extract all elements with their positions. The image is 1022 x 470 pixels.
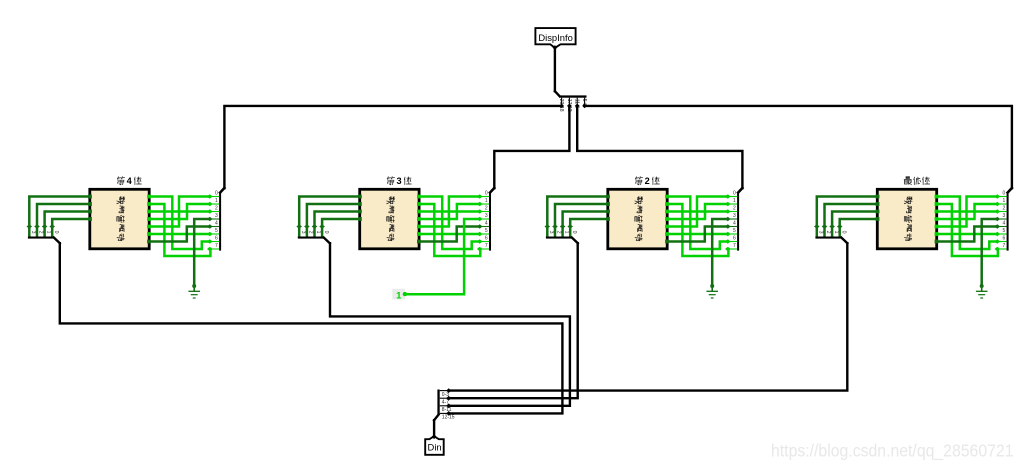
wire seg a: P1->tap6 U2 bbox=[421, 197, 480, 250]
wire seg g: P7->tap4 U4 bbox=[938, 227, 997, 242]
svg-text:7: 7 bbox=[1003, 243, 1006, 249]
wire input bit1 U4 bbox=[822, 204, 876, 237]
splitter leg bit6 SPR3 bbox=[725, 239, 737, 244]
bus wire DispInfo[5:0] to U4 (right run) bbox=[585, 106, 1012, 188]
pins input (left) U3 bbox=[606, 195, 610, 221]
svg-text:8-11: 8-11 bbox=[442, 407, 452, 413]
junction node (ground pin) bbox=[980, 284, 984, 288]
splitter SPR4 (8-bit combine, right of U4) bbox=[1007, 188, 1012, 251]
svg-text:7: 7 bbox=[485, 243, 488, 249]
splitter SP5 Din 16-bit -> 4x4 bbox=[437, 390, 448, 415]
label title block2 bbox=[387, 176, 411, 186]
splitter tap labels 0-7 bbox=[733, 190, 736, 249]
node DispInfo stem diamond bbox=[553, 45, 558, 50]
wire seg b: P2->tap7 U4 bbox=[938, 204, 998, 256]
splitter tap labels 3 2 1 0 bbox=[818, 231, 847, 234]
wire seg e: P5->tap0 U1 bbox=[151, 197, 210, 227]
label 数码管驱动 (vertical) U3 bbox=[635, 197, 643, 241]
splitter SPR3 (8-bit combine, right of U3) bbox=[737, 188, 742, 251]
svg-text:4-7: 4-7 bbox=[442, 399, 449, 405]
svg-text:6: 6 bbox=[485, 235, 488, 241]
svg-text:2: 2 bbox=[308, 231, 314, 234]
splitter leg bit6 SPR2 bbox=[477, 239, 489, 244]
bus wire DispInfo[11:6] to U3 bbox=[577, 106, 742, 188]
splitter tap labels 0-7 bbox=[1003, 190, 1006, 249]
wire seg g: P7->tap4 U1 bbox=[151, 227, 210, 242]
svg-text:0: 0 bbox=[840, 231, 846, 234]
splitter leg bit0 SPR1 bbox=[207, 194, 219, 199]
wire seg f: P6->tap5 U4 bbox=[938, 233, 997, 236]
label 数码管驱动 (vertical) U1 bbox=[117, 197, 125, 241]
splitter leg bit4 SPR4 bbox=[995, 224, 1007, 229]
svg-text:0: 0 bbox=[215, 190, 218, 196]
splitter SPR2 (8-bit combine, right of U2) bbox=[489, 188, 494, 251]
wire input bit0 U2 bbox=[296, 197, 358, 237]
svg-text:2: 2 bbox=[215, 205, 218, 211]
splitter leg bit5 SPR4 bbox=[995, 232, 1007, 237]
tunnel DispInfo bbox=[535, 28, 575, 48]
wire input bit2 U4 bbox=[829, 212, 876, 237]
svg-text:1: 1 bbox=[833, 231, 839, 234]
svg-text:3: 3 bbox=[548, 231, 554, 234]
subcircuit U3 数码管驱动 (第2位) bbox=[608, 189, 667, 249]
svg-text:2: 2 bbox=[1003, 205, 1006, 211]
wire seg c: P3->tap2 U3 bbox=[669, 210, 728, 213]
splitter leg bit4 SPR3 bbox=[725, 224, 737, 229]
bus wire Din[12:15] to U1 bbox=[60, 243, 563, 413]
splitter leg bit7 SPR4 bbox=[995, 247, 1007, 252]
label title block1 bbox=[117, 176, 141, 186]
wire seg a: P1->tap6 U3 bbox=[669, 197, 728, 250]
pins input (left) U2 bbox=[358, 195, 362, 221]
splitter SPL1 (4-bit fanout, left of U1) bbox=[28, 237, 60, 244]
wire seg d: P4->tap1 U4 bbox=[938, 204, 997, 219]
wire seg e: P5->tap0 U3 bbox=[669, 197, 728, 227]
pins output (right) U2 bbox=[417, 195, 421, 244]
splitter leg bit1 SPR1 bbox=[207, 202, 219, 207]
svg-text:2: 2 bbox=[733, 205, 736, 211]
splitter leg bit0 SPR2 bbox=[477, 194, 489, 199]
label 数码管驱动 (vertical) U2 bbox=[387, 197, 395, 241]
splitter leg bit1 SPR3 bbox=[725, 202, 737, 207]
node SP0 tap1 bbox=[567, 104, 572, 109]
wire seg g: P7->tap4 U2 bbox=[421, 227, 480, 242]
wire seg d: P4->tap1 U1 bbox=[151, 204, 210, 219]
splitter SP0 DispInfo 24-bit -> 4x6 bbox=[555, 91, 587, 106]
svg-text:4: 4 bbox=[215, 220, 218, 226]
watermark text bbox=[771, 441, 1014, 462]
pins output (right) U3 bbox=[665, 195, 669, 244]
wire seg g: P7->tap4 U3 bbox=[669, 227, 728, 242]
svg-text:2: 2 bbox=[485, 205, 488, 211]
svg-text:5: 5 bbox=[485, 228, 488, 234]
splitter tap labels 3 2 1 0 bbox=[548, 231, 577, 234]
node Din stem diamond bbox=[432, 434, 437, 439]
svg-text:4: 4 bbox=[485, 220, 488, 226]
svg-text:6: 6 bbox=[1003, 235, 1006, 241]
svg-text:12-15: 12-15 bbox=[442, 415, 455, 421]
bus wire DispInfo[23:18] to U1 (left run) bbox=[224, 106, 561, 188]
wire seg e: P5->tap0 U2 bbox=[421, 197, 480, 227]
splitter SP5 tap labels 0-3 4-7 8-11 12-15 bbox=[442, 392, 455, 421]
svg-text:5: 5 bbox=[733, 228, 736, 234]
svg-text:0-3: 0-3 bbox=[442, 392, 449, 398]
wire seg h: ground->tap3 U3 bbox=[712, 219, 728, 286]
splitter leg bit7 SPR1 bbox=[207, 247, 219, 252]
ground G4 bbox=[976, 286, 988, 298]
wire input bit1 U2 bbox=[304, 204, 358, 237]
splitter tap labels 3 2 1 0 bbox=[30, 231, 59, 234]
svg-text:0: 0 bbox=[323, 231, 329, 234]
wire seg a: P1->tap6 U1 bbox=[151, 197, 210, 250]
bus wire Din vertical bbox=[434, 415, 439, 437]
svg-text:1: 1 bbox=[396, 290, 402, 301]
bus wire DispInfo[17:12] to U2 bbox=[494, 106, 569, 188]
svg-text:2: 2 bbox=[38, 231, 44, 234]
ground G3 bbox=[706, 286, 718, 298]
splitter leg bit6 SPR4 bbox=[995, 239, 1007, 244]
svg-text:5: 5 bbox=[1003, 228, 1006, 234]
svg-text:4: 4 bbox=[127, 176, 133, 186]
splitter leg bit0 SPR4 bbox=[995, 194, 1007, 199]
splitter SPL3 (4-bit fanout, left of U3) bbox=[546, 237, 578, 244]
wire seg h: constant->tap3 U2 bbox=[405, 219, 480, 294]
splitter leg bit4 SPR1 bbox=[207, 224, 219, 229]
splitter leg bit3 SPR4 bbox=[995, 217, 1007, 222]
svg-text:3: 3 bbox=[733, 213, 736, 219]
junction node (ground pin) bbox=[710, 284, 714, 288]
wire seg f: P6->tap5 U1 bbox=[151, 233, 210, 236]
svg-text:7: 7 bbox=[733, 243, 736, 249]
splitter SPL2 (4-bit fanout, left of U2) bbox=[298, 237, 330, 244]
splitter leg bit6 SPR1 bbox=[207, 239, 219, 244]
splitter leg bit0 SPR3 bbox=[725, 194, 737, 199]
wire seg f: P6->tap5 U3 bbox=[669, 233, 728, 236]
svg-text:1: 1 bbox=[563, 231, 569, 234]
svg-text:0: 0 bbox=[53, 231, 59, 234]
splitter leg bit5 SPR3 bbox=[725, 232, 737, 237]
svg-text:1: 1 bbox=[733, 198, 736, 204]
svg-text:Din: Din bbox=[428, 442, 442, 453]
constant K1 value 1 bbox=[392, 289, 407, 302]
svg-text:3: 3 bbox=[485, 213, 488, 219]
splitter tap labels 0-7 bbox=[215, 190, 218, 249]
svg-text:DispInfo: DispInfo bbox=[538, 32, 572, 43]
svg-text:5: 5 bbox=[215, 228, 218, 234]
wire input bit2 U2 bbox=[312, 212, 359, 237]
svg-text:1: 1 bbox=[45, 231, 51, 234]
wire input bit3 U3 bbox=[567, 219, 606, 237]
svg-text:1: 1 bbox=[485, 198, 488, 204]
svg-text:3: 3 bbox=[300, 231, 306, 234]
splitter SP0 tap labels 23-18 17-12 11-6 5-0 bbox=[558, 99, 587, 112]
svg-text:4: 4 bbox=[733, 220, 736, 226]
wire seg d: P4->tap1 U2 bbox=[421, 204, 480, 219]
wire input bit3 U2 bbox=[319, 219, 358, 237]
wire seg c: P3->tap2 U4 bbox=[938, 210, 997, 213]
svg-text:3: 3 bbox=[30, 231, 36, 234]
svg-text:2: 2 bbox=[825, 231, 831, 234]
splitter leg bit2 SPR3 bbox=[725, 209, 737, 214]
svg-text:6: 6 bbox=[733, 235, 736, 241]
svg-text:3: 3 bbox=[818, 231, 824, 234]
wire seg c: P3->tap2 U1 bbox=[151, 210, 210, 213]
pins input (left) U1 bbox=[88, 195, 92, 221]
svg-text:1: 1 bbox=[1003, 198, 1006, 204]
node SP0 tap0 bbox=[559, 104, 564, 109]
splitter leg bit2 SPR1 bbox=[207, 209, 219, 214]
node SP5 tap3 bbox=[446, 411, 451, 416]
svg-text:1: 1 bbox=[215, 198, 218, 204]
splitter leg bit2 SPR4 bbox=[995, 209, 1007, 214]
wire input bit1 U1 bbox=[34, 204, 88, 237]
svg-text:2: 2 bbox=[556, 231, 562, 234]
wire seg b: P2->tap7 U2 bbox=[421, 204, 481, 256]
svg-text:https://blog.csdn.net/qq_28560: https://blog.csdn.net/qq_28560721 bbox=[771, 441, 1014, 462]
label title block3 bbox=[635, 176, 659, 186]
wire input bit0 U1 bbox=[27, 197, 89, 237]
junction node (ground pin) bbox=[192, 284, 196, 288]
node SP5 tap1 bbox=[446, 396, 451, 401]
bus wire Din[8:11] to U2 bbox=[330, 243, 570, 406]
subcircuit U2 数码管驱动 (第3位) bbox=[360, 189, 419, 249]
pins input (left) U4 bbox=[876, 195, 880, 221]
bus wire Din[4:7] to U3 bbox=[449, 243, 578, 398]
svg-text:0: 0 bbox=[571, 231, 577, 234]
svg-text:0: 0 bbox=[733, 190, 736, 196]
wire input bit2 U1 bbox=[42, 212, 89, 237]
svg-text:3: 3 bbox=[397, 176, 402, 186]
pins output (right) U1 bbox=[147, 195, 151, 244]
svg-text:7: 7 bbox=[215, 243, 218, 249]
ground G1 bbox=[188, 286, 200, 298]
splitter leg bit1 SPR2 bbox=[477, 202, 489, 207]
wire seg a: P1->tap6 U4 bbox=[938, 197, 997, 250]
svg-text:3: 3 bbox=[1003, 213, 1006, 219]
splitter SPL4 (4-bit fanout, left of U4) bbox=[815, 237, 847, 244]
svg-text:0: 0 bbox=[485, 190, 488, 196]
splitter SPR1 (8-bit combine, right of U1) bbox=[219, 188, 224, 251]
pins output (right) U4 bbox=[935, 195, 939, 244]
splitter leg bit2 SPR2 bbox=[477, 209, 489, 214]
wire input bit2 U3 bbox=[560, 212, 607, 237]
wire seg e: P5->tap0 U4 bbox=[938, 197, 997, 227]
splitter leg bit5 SPR1 bbox=[207, 232, 219, 237]
wire seg b: P2->tap7 U3 bbox=[669, 204, 729, 256]
node SP0 tap2 bbox=[575, 104, 580, 109]
wire seg b: P2->tap7 U1 bbox=[151, 204, 211, 256]
subcircuit U1 数码管驱动 (第4位) bbox=[90, 189, 149, 249]
splitter leg bit1 SPR4 bbox=[995, 202, 1007, 207]
wire seg d: P4->tap1 U3 bbox=[669, 204, 728, 219]
splitter leg bit3 SPR2 bbox=[477, 217, 489, 222]
splitter tap labels 0-7 bbox=[485, 190, 488, 249]
bus wire DispInfo vertical bbox=[554, 48, 556, 92]
label 数码管驱动 (vertical) U4 bbox=[904, 197, 912, 241]
splitter tap labels 3 2 1 0 bbox=[300, 231, 329, 234]
node SP5 tap2 bbox=[446, 403, 451, 408]
splitter leg bit5 SPR2 bbox=[477, 232, 489, 237]
splitter leg bit7 SPR3 bbox=[725, 247, 737, 252]
splitter leg bit3 SPR1 bbox=[207, 217, 219, 222]
svg-text:3: 3 bbox=[215, 213, 218, 219]
svg-text:2: 2 bbox=[645, 176, 650, 186]
node SP5 tap0 bbox=[446, 388, 451, 393]
wire input bit3 U1 bbox=[49, 219, 88, 237]
svg-text:4: 4 bbox=[1003, 220, 1006, 226]
splitter leg bit4 SPR2 bbox=[477, 224, 489, 229]
bus wire Din[0:3] to U4 bbox=[449, 243, 848, 390]
label title block4 bbox=[904, 177, 930, 185]
wire input bit0 U4 bbox=[814, 197, 876, 237]
splitter leg bit3 SPR3 bbox=[725, 217, 737, 222]
wire input bit0 U3 bbox=[545, 197, 607, 237]
node SP0 tap3 bbox=[582, 104, 587, 109]
wire seg h: ground->tap3 U1 bbox=[194, 219, 210, 286]
wire seg h: ground->tap3 U4 bbox=[982, 219, 998, 286]
splitter leg bit7 SPR2 bbox=[477, 247, 489, 252]
svg-text:6: 6 bbox=[215, 235, 218, 241]
wire input bit1 U3 bbox=[552, 204, 606, 237]
wire seg c: P3->tap2 U2 bbox=[421, 210, 480, 213]
wire seg f: P6->tap5 U2 bbox=[421, 233, 480, 236]
tunnel Din bbox=[425, 436, 444, 455]
svg-text:0: 0 bbox=[1003, 190, 1006, 196]
svg-text:1: 1 bbox=[315, 231, 321, 234]
subcircuit U4 数码管驱动 (最低位) bbox=[877, 189, 936, 249]
wire input bit3 U4 bbox=[837, 219, 876, 237]
